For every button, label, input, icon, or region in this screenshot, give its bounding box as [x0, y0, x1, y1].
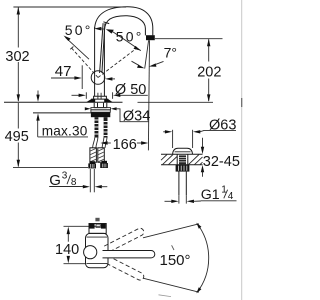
202 top extension line — [155, 38, 223, 40]
svg-text:7°: 7° — [164, 45, 177, 61]
threaded stud right — [104, 117, 108, 137]
solid lever — [100, 23, 104, 73]
mounting nut — [91, 110, 110, 112]
base cap — [94, 96, 107, 99]
base inner lines — [98, 93, 101, 99]
D34 leader — [116, 109, 149, 122]
max.30 upper arrow — [37, 91, 39, 96]
arrow down 302 bottom — [17, 94, 20, 102]
lever top cap — [103, 22, 109, 24]
page border right — [241, 0, 243, 300]
water stream 7-degree line — [145, 40, 149, 68]
wire bottom extension line (hose end reference) — [13, 167, 88, 169]
dimension 140 vertical — [67, 233, 69, 242]
140 top extension line — [64, 225, 101, 227]
pivot joint circle — [91, 71, 105, 85]
deck extension line right (202 bottom reference) — [138, 101, 214, 103]
mounting washer — [91, 108, 111, 110]
drain body — [176, 154, 178, 165]
150 angle ray upper — [143, 224, 199, 238]
deck line left — [4, 101, 123, 103]
supply hose right — [98, 148, 105, 163]
threaded stud left — [95, 117, 99, 137]
svg-text:Ø34: Ø34 — [123, 109, 150, 125]
escutcheon flange right — [104, 99, 112, 102]
G3/8 extension lines — [89, 169, 91, 192]
lever tip arrow left — [94, 27, 101, 31]
arrow down 495 bottom — [17, 160, 20, 168]
svg-text:50°: 50° — [116, 28, 144, 44]
D50 extension lines — [85, 92, 87, 99]
angle line left 50 — [66, 37, 90, 59]
svg-text:3: 3 — [62, 171, 68, 182]
supply hose left — [90, 148, 97, 163]
swivel joint circle — [84, 246, 97, 259]
escutcheon flange left — [86, 99, 95, 102]
arrow up 302 top — [17, 7, 20, 15]
basin deck lines — [161, 153, 203, 155]
D63 extension lines — [172, 130, 174, 148]
dashed spout position lower — [104, 256, 145, 282]
stray mark above 150 label — [172, 245, 174, 250]
dashed spout position upper — [104, 227, 145, 253]
G1 1/4 arrows — [165, 200, 173, 202]
svg-text:Ø63: Ø63 — [209, 118, 236, 134]
water stream vertical reference line — [148, 40, 149, 150]
svg-text:495: 495 — [5, 129, 29, 145]
7-degree angle arrows — [132, 61, 139, 65]
hose bend curves — [93, 138, 98, 148]
svg-text:202: 202 — [197, 64, 221, 80]
lever tip arrow right and angle line right 50 — [106, 29, 114, 33]
svg-text:50°: 50° — [65, 22, 93, 38]
drain plug cap — [173, 148, 193, 154]
deck hatch left — [161, 155, 177, 165]
svg-text:140: 140 — [55, 242, 79, 258]
D34 arrows — [85, 108, 87, 110]
dashed lever left position — [72, 48, 98, 77]
svg-text:150°: 150° — [160, 252, 191, 269]
max.30 lower arrow and leader — [37, 121, 39, 137]
D50 arrows — [72, 94, 80, 96]
D63 arrows — [163, 131, 166, 133]
max.30 lower deck line — [33, 112, 91, 114]
wire top extension line (302 spout height reference) — [13, 6, 126, 8]
140 bottom extension line — [64, 263, 87, 265]
150 angle arc — [197, 224, 209, 293]
dimension 202 vertical — [208, 39, 210, 101]
svg-text:32-45: 32-45 — [203, 154, 240, 170]
faucet column — [94, 27, 96, 96]
dimension 166 leader — [100, 141, 107, 144]
stray page mark bottom — [159, 295, 172, 297]
drain thread — [179, 155, 186, 164]
locknut — [176, 165, 190, 172]
deck hatch right — [189, 155, 203, 165]
hose connector right — [101, 161, 107, 163]
svg-text:max.30: max.30 — [42, 123, 88, 138]
spout outer curve — [95, 7, 153, 36]
svg-text:302: 302 — [5, 49, 29, 65]
47 counter arrow at joint — [105, 77, 112, 80]
dimension 32-45 — [202, 138, 204, 148]
dimension 302/495 vertical line — [17, 8, 19, 167]
47 extension line — [81, 65, 83, 89]
tailpipe — [178, 172, 180, 196]
spout in plan — [103, 251, 155, 258]
lever cap top mark — [95, 218, 99, 222]
G1 1/4 extension lines — [178, 195, 180, 203]
below-deck shank — [94, 103, 107, 108]
hose connector left — [90, 161, 96, 163]
150 angle ray lower — [143, 278, 199, 292]
lever in plan — [89, 224, 106, 234]
spout inner curve — [104, 16, 145, 36]
body in plan — [86, 233, 109, 267]
dashed lever right position — [98, 48, 137, 77]
G3/8 arrows — [78, 186, 84, 188]
svg-text:166: 166 — [113, 137, 137, 153]
spout outlet (mousseur) — [146, 35, 155, 40]
svg-text:1: 1 — [221, 185, 227, 196]
